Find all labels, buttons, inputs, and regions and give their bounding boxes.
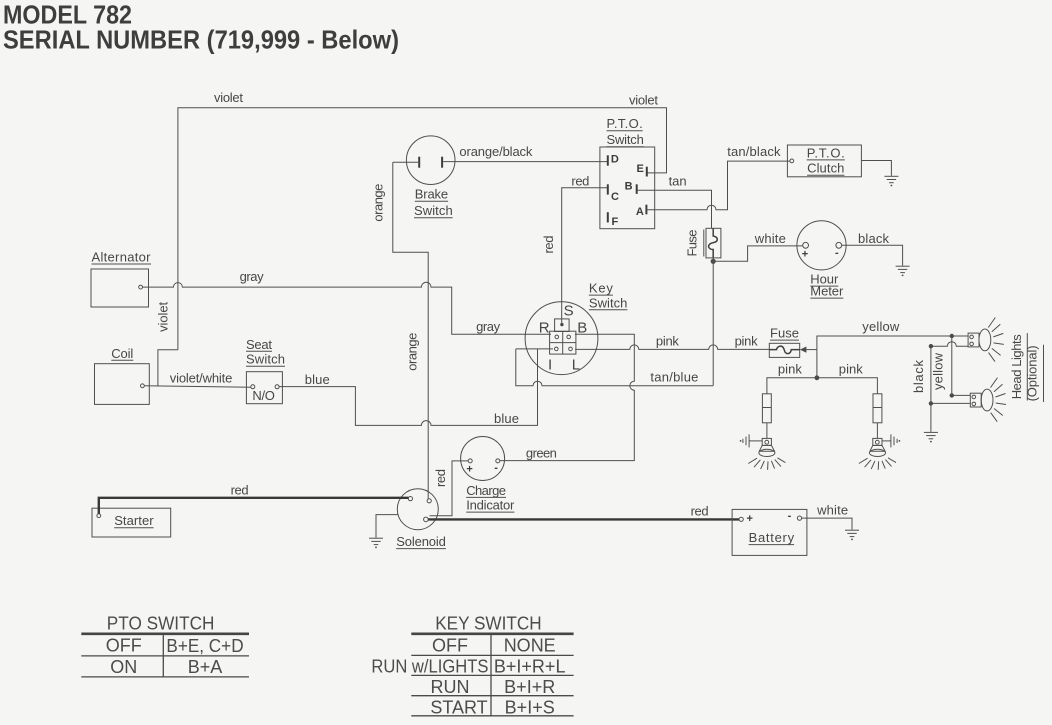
svg-text:yellow: yellow [862,319,900,334]
svg-text:Switch: Switch [414,203,453,218]
svg-text:OFF: OFF [106,636,142,656]
ground headlights [924,432,938,442]
PTO switch [600,116,655,229]
svg-text:L: L [572,356,580,373]
svg-text:pink: pink [839,361,864,376]
wire pink from L [575,345,769,349]
svg-text:white: white [754,231,786,246]
svg-text:tan/blue: tan/blue [650,370,698,385]
svg-text:Fuse: Fuse [770,326,799,341]
wire fuse2 to riser [806,349,817,351]
svg-text:F: F [612,216,619,228]
wire red starter [99,498,409,514]
brake switch [393,136,455,218]
wire red battery [428,518,739,520]
svg-text:Clutch: Clutch [807,161,844,176]
svg-text:violet: violet [629,93,658,108]
wire black headlights [931,342,968,432]
svg-text:PTO SWITCH: PTO SWITCH [107,613,215,633]
svg-text:Coil: Coil [111,346,133,361]
ground lamp left [740,434,763,447]
solenoid [396,489,446,549]
svg-text:red: red [541,236,556,254]
svg-text:ON: ON [110,657,137,677]
junction dot fuse1 [711,259,716,264]
arrow into fuse2 [800,347,807,353]
wire black to ground [842,245,903,265]
svg-text:yellow: yellow [930,352,945,390]
svg-text:violet: violet [214,90,243,105]
key switch [525,281,627,375]
wire black lower [931,402,970,404]
svg-text:Switch: Switch [246,352,285,367]
label head lights rotated [1009,333,1044,402]
svg-text:+: + [466,464,472,476]
wire clutch ground [862,161,892,176]
wire red keyswitch [562,188,608,324]
svg-text:black: black [911,360,926,394]
ground hour meter [896,266,910,276]
wire blue [279,349,537,426]
svg-text:(Optional): (Optional) [1025,345,1040,401]
svg-text:Starter: Starter [114,513,154,528]
svg-text:Brake: Brake [415,187,448,202]
svg-text:blue: blue [305,372,330,387]
svg-text:NONE: NONE [504,636,556,656]
wire violet/white [144,386,251,388]
svg-text:-: - [835,247,839,259]
svg-text:P.T.O.: P.T.O. [807,145,845,160]
ground lamp right [882,434,900,447]
svg-text:red: red [571,174,589,189]
svg-text:pink: pink [735,333,759,348]
junction dot pink [815,375,820,380]
svg-text:Switch: Switch [607,132,644,147]
svg-text:Alternator: Alternator [92,250,152,265]
svg-text:-: - [788,510,792,522]
svg-text:pink: pink [778,361,803,376]
svg-text:I: I [548,356,552,373]
svg-text:red: red [231,483,249,498]
svg-text:blue: blue [494,411,519,426]
wire pink lamps [767,378,878,394]
svg-text:Solenoid: Solenoid [396,534,446,549]
svg-text:B+I+S: B+I+S [505,697,555,717]
svg-text:tan/black: tan/black [727,144,781,159]
ground battery [845,530,859,540]
battery [732,509,807,555]
svg-text:B: B [625,180,633,192]
svg-text:E: E [637,163,644,175]
wire fuse1 down to tan/blue [712,258,714,386]
svg-text:violet: violet [155,302,170,332]
table PTO switch [81,613,249,677]
wire orange/black [443,161,607,163]
lamp holder left [762,394,771,439]
head light bottom [970,378,1006,422]
wire key I left [516,348,553,350]
svg-text:Seat: Seat [246,337,272,352]
wire orange [393,162,428,499]
fuse F1 [685,228,721,258]
svg-text:Switch: Switch [589,295,628,310]
svg-text:white: white [816,502,848,517]
wire tan/blue [516,349,713,386]
svg-text:red: red [691,503,709,518]
svg-text:SERIAL NUMBER (719,999 - Below: SERIAL NUMBER (719,999 - Below) [3,25,399,55]
svg-text:violet/white: violet/white [170,371,233,386]
wire yellow riser [817,336,968,378]
wire tan [637,190,712,228]
svg-text:S: S [564,303,574,320]
svg-text:B+I+R: B+I+R [504,677,555,697]
wire gray [143,282,552,334]
svg-text:Meter: Meter [810,284,844,299]
wire red charge [430,461,469,516]
svg-text:B+A: B+A [188,657,223,677]
svg-text:RUN w/LIGHTS: RUN w/LIGHTS [371,657,488,677]
svg-text:P.T.O.: P.T.O. [607,116,643,131]
svg-text:C: C [611,191,619,203]
junction dot yellow top [950,334,954,338]
coil [95,346,150,405]
svg-text:RUN: RUN [431,677,470,697]
svg-text:gray: gray [240,269,265,284]
svg-text:black: black [858,231,890,246]
wire violet top [158,108,667,386]
fuse F2 [769,326,799,358]
svg-text:orange: orange [371,184,386,222]
svg-text:tan: tan [669,174,687,189]
PTO clutch [787,145,861,177]
svg-text:Charge: Charge [466,483,506,498]
wire white battery [802,518,852,530]
indicator lamp right [859,438,896,469]
charge indicator [461,437,515,513]
svg-text:Battery: Battery [749,530,795,545]
wire tan/black from A [647,161,790,210]
seat switch [246,337,285,404]
svg-text:START: START [430,697,487,717]
svg-text:D: D [611,153,619,165]
lamp holder right [873,394,882,439]
svg-text:KEY SWITCH: KEY SWITCH [435,613,541,633]
indicator lamp left [748,438,785,469]
svg-text:B+I+R+L: B+I+R+L [494,657,566,677]
svg-text:Fuse: Fuse [685,230,700,257]
svg-text:OFF: OFF [432,636,468,656]
wire white [713,246,803,261]
svg-text:orange: orange [405,333,420,371]
svg-text:gray: gray [476,319,501,334]
svg-text:N/O: N/O [252,388,275,403]
svg-text:-: - [494,462,498,474]
wire yellow down [952,336,970,395]
svg-text:+: + [747,513,753,525]
head light top [968,318,1004,362]
svg-text:Head Lights: Head Lights [1009,334,1024,400]
ground solenoid [369,515,398,549]
svg-text:R: R [539,319,550,336]
svg-text:Indicator: Indicator [466,498,515,513]
svg-text:red: red [433,469,448,487]
wire key B to green [500,334,634,460]
ground clutch [884,176,898,186]
starter [92,508,171,537]
junction dot black bottom [929,401,933,405]
junction dot yellow bottom [950,393,954,397]
svg-text:pink: pink [656,333,680,348]
alternator [91,250,151,308]
svg-text:orange/black: orange/black [459,144,533,159]
svg-text:green: green [526,446,557,461]
svg-text:Key: Key [589,281,614,296]
svg-text:A: A [636,206,644,218]
hour meter [797,221,846,299]
junction dot black top [929,344,933,348]
svg-text:+: + [802,249,808,261]
svg-text:B+E, C+D: B+E, C+D [166,636,243,656]
table key switch [371,613,573,717]
